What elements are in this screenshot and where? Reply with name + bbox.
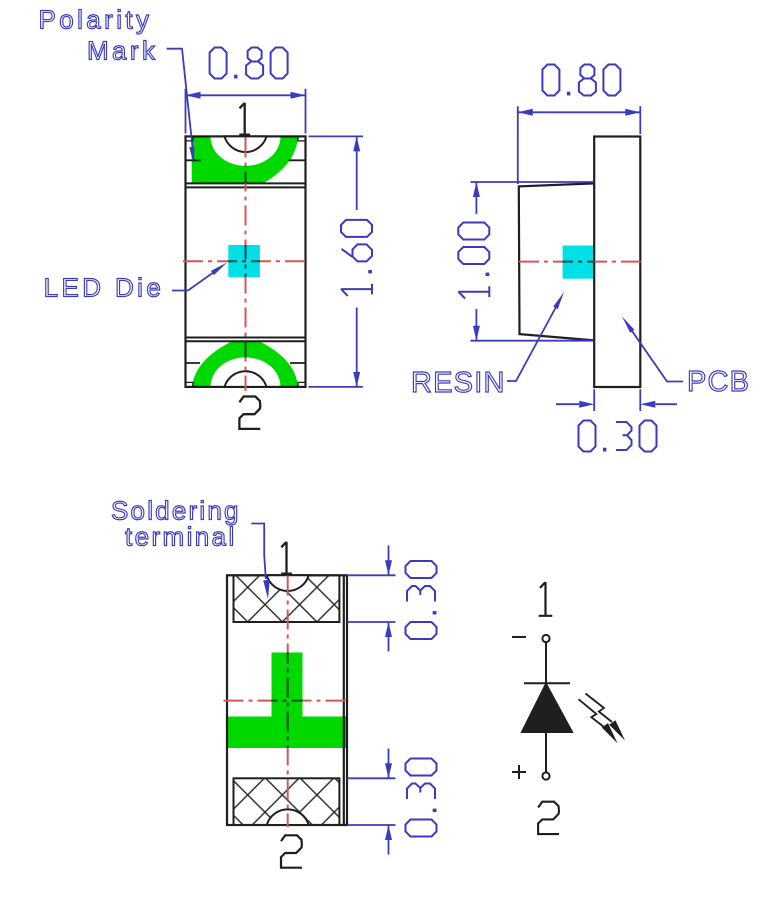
dim 0.80 line xyxy=(518,111,641,113)
LED die (cyan) xyxy=(563,246,595,279)
BOTTOM VIEW DIMENSIONS AND LABELS xyxy=(111,496,437,855)
dim 1.60 line xyxy=(356,136,358,387)
dim text 0.80 (side) xyxy=(542,65,620,96)
notch pad 1 xyxy=(267,575,309,591)
corner plating mark bottom-right xyxy=(298,382,306,387)
internal terminal trace (green T shape) xyxy=(227,653,347,749)
centerline vertical (red) xyxy=(287,576,289,828)
cathode terminal node (pin 1) xyxy=(542,635,549,642)
dim text 1.60 (rotated) xyxy=(341,220,372,296)
dim 1.60 extension lines xyxy=(309,136,364,387)
dim 0.30 lower extension lines xyxy=(347,778,396,825)
dim 0.30 lower arrowheads xyxy=(385,763,392,840)
anode terminal node (pin 2) xyxy=(542,772,549,779)
dim 0.80 arrowheads xyxy=(186,92,306,99)
terminal side edge lines pin2 xyxy=(186,362,306,364)
dim 1.00 line xyxy=(475,182,477,341)
svg-text:Mark: Mark xyxy=(87,36,158,66)
terminal side edge lines pin1 xyxy=(186,159,306,161)
FRONT (TOP) VIEW xyxy=(183,103,309,429)
PCB leader line xyxy=(631,330,683,382)
notch pad 2 xyxy=(267,809,309,825)
pin number 1 xyxy=(239,103,250,135)
LED die leader arrowhead xyxy=(211,263,227,276)
dim 0.80 line xyxy=(186,94,306,96)
LED SCHEMATIC SYMBOL xyxy=(512,582,625,834)
package body outline xyxy=(186,136,306,387)
polarity mark leader arrowhead xyxy=(189,147,194,165)
svg-text:terminal: terminal xyxy=(125,522,237,552)
dim 1.00 extension lines xyxy=(470,182,593,341)
corner plating mark top-right xyxy=(298,136,306,141)
LED die (cyan) xyxy=(228,245,260,277)
light emission arrow 1 head xyxy=(609,720,625,740)
dim 0.30 lower arrow lines xyxy=(388,749,390,855)
SIDE VIEW DIMENSIONS AND LABELS xyxy=(411,65,750,452)
pin 2 label xyxy=(538,802,559,834)
dim 0.80 extension lines xyxy=(518,106,641,184)
light emission arrow 2 line xyxy=(579,699,605,727)
soldering terminal leader arrowhead xyxy=(263,580,270,599)
light emission arrow 1 line xyxy=(586,694,613,723)
wire anode xyxy=(545,732,547,772)
pin number 2 xyxy=(281,835,302,867)
terminal fillet pin 2 (green) xyxy=(192,342,299,387)
dim text 1.00 (rotated) xyxy=(458,223,489,299)
diode D1 cathode bar xyxy=(524,682,570,684)
centerline horizontal (red) xyxy=(183,260,309,262)
soldering terminal leader line xyxy=(251,524,265,580)
FRONT VIEW DIMENSIONS AND LABELS xyxy=(39,5,373,387)
centerline horizontal (red) xyxy=(224,700,351,702)
centerline horizontal (red) xyxy=(519,261,641,263)
dim 0.30 tails xyxy=(556,403,677,405)
SIDE VIEW xyxy=(519,137,641,388)
soldering pad 2 (crosshatched) xyxy=(234,778,340,825)
notch pin1 xyxy=(225,136,267,152)
terminal fillet pin 1 (green, with polarity mark block) xyxy=(192,136,299,183)
dim 0.30 extension lines xyxy=(594,389,640,411)
dim 0.80 extension lines xyxy=(186,89,306,134)
svg-text:RESIN: RESIN xyxy=(411,367,506,399)
PCB leader arrowhead xyxy=(622,317,634,333)
resin body outline xyxy=(519,183,594,340)
dim 0.30 arrowheads xyxy=(579,401,655,408)
corner plating mark top-left xyxy=(186,136,194,141)
inner right edge line xyxy=(343,575,345,825)
svg-text:LED Die: LED Die xyxy=(44,273,165,303)
dim text 0.30 (side) xyxy=(579,421,657,452)
LED die leader line xyxy=(172,272,214,291)
dim text 0.80 xyxy=(210,48,288,79)
notch pin2 xyxy=(225,371,267,387)
pin number 1 xyxy=(281,542,292,574)
polarity mark leader line xyxy=(167,49,193,147)
wire cathode xyxy=(545,642,547,683)
svg-text:PCB: PCB xyxy=(687,366,750,398)
centerline vertical (red) xyxy=(245,138,247,392)
dim 0.30 upper arrowheads xyxy=(385,560,392,637)
pin 1 label xyxy=(539,582,553,616)
dim 1.00 arrowheads xyxy=(473,182,480,341)
pin number 2 xyxy=(239,397,260,429)
cathode polarity minus sign xyxy=(512,636,526,638)
svg-text:Polarity: Polarity xyxy=(39,5,153,35)
PCB outline xyxy=(594,137,640,388)
terminal separation double line (pin 2 side) xyxy=(186,338,306,342)
anode polarity plus sign xyxy=(512,765,526,779)
dim 0.30 upper extension lines xyxy=(347,575,396,622)
BOTTOM PAD VIEW xyxy=(224,542,351,868)
soldering pad 1 (crosshatched) xyxy=(234,575,340,622)
dim 0.80 arrowheads xyxy=(518,109,641,116)
RESIN leader line xyxy=(507,307,556,381)
dim text 0.30 lower (rotated) xyxy=(406,759,437,837)
body outline xyxy=(227,575,347,825)
dim text 0.30 upper (rotated) xyxy=(406,561,437,639)
terminal separation double line (pin 1 side) xyxy=(186,183,306,187)
RESIN leader arrowhead xyxy=(553,292,564,309)
light emission arrow 2 head xyxy=(602,723,618,743)
diode D1 triangle xyxy=(522,684,572,732)
dim 0.30 upper arrow lines xyxy=(388,546,390,652)
corner plating mark bottom-left xyxy=(186,382,194,387)
dim 1.60 arrowheads xyxy=(353,136,360,387)
